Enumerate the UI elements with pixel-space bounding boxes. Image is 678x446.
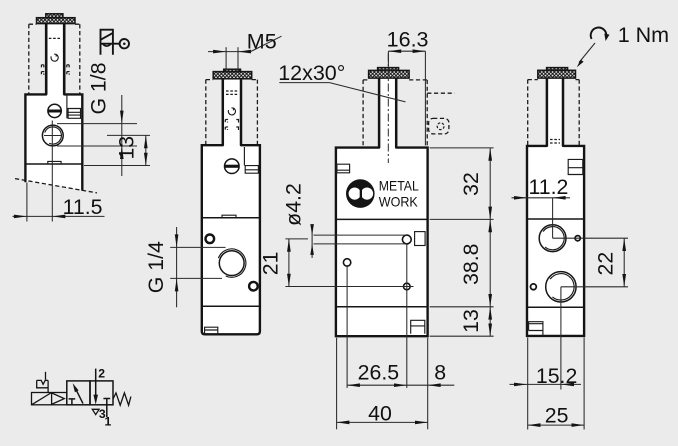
svg-text:G 1/8: G 1/8: [87, 62, 111, 114]
dim G1/8 extension bottom: [57, 145, 137, 147]
dim 26.5 line: [347, 384, 407, 386]
view1 stem fill: [46, 23, 64, 95]
view1 stem hidden detent left: [41, 65, 43, 75]
dim 13 extension bottom: [84, 165, 150, 167]
symbol detent: [37, 380, 48, 392]
view2 divider notch: [222, 215, 236, 218]
symbol actuator box: [32, 393, 67, 405]
torque icon arc: [591, 28, 607, 39]
dim 11.5 arrow left: [14, 215, 27, 219]
svg-text:1: 1: [105, 415, 112, 429]
view1 stem wall left: [45, 24, 48, 95]
view2 body outline: [202, 145, 260, 334]
view2 divider 2: [202, 305, 260, 307]
dim right extension bottom: [430, 335, 494, 337]
dim right extension d2: [430, 306, 494, 308]
symbol solenoid diagonal: [32, 393, 52, 405]
central body fill: [336, 148, 428, 337]
svg-text:WORK: WORK: [379, 194, 419, 210]
dim 21 extension bottom: [285, 286, 413, 288]
central phantom lever circle: [437, 123, 444, 130]
view1 port G1/8 thread arc: [45, 127, 62, 144]
dim 16.3 extension left: [387, 51, 389, 67]
right bottom-left box: [529, 322, 543, 336]
central phantom outline: [363, 80, 427, 148]
symbol left blocked port T: [69, 399, 76, 405]
view1 screw slot: [48, 110, 61, 113]
view2 port G1/4 thread arc: [218, 249, 246, 277]
svg-text:40: 40: [368, 401, 392, 425]
right stem wall left: [546, 78, 549, 146]
right divider 1: [527, 218, 584, 220]
right port lower circle: [546, 272, 576, 302]
logo center bar: [360, 184, 362, 202]
right ring upper: [575, 236, 580, 241]
dim 13 line: [145, 135, 147, 165]
view1 port centerline vertical: [51, 121, 53, 222]
view1 body fill: [25, 94, 82, 189]
view2 screw: [225, 159, 240, 174]
svg-text:26.5: 26.5: [358, 361, 399, 385]
view2 stem fill: [223, 78, 242, 145]
torque icon arrowhead: [604, 34, 609, 42]
dim G1/4 line: [176, 227, 178, 307]
view1 body outline: [25, 94, 82, 189]
central hole left: [343, 259, 350, 266]
symbol square left: [67, 381, 90, 405]
icon knob dot: [123, 42, 126, 45]
right body fill: [527, 146, 584, 336]
view1 compartment line: [66, 94, 68, 118]
dim 11.5 extension left: [26, 183, 28, 222]
dim 11.5 arrow right: [52, 215, 65, 219]
symbol port2 line: [95, 369, 97, 401]
dim 22 line: [623, 238, 625, 287]
dim phi4.2 arrow down: [310, 224, 314, 235]
dim 13b line: [489, 307, 491, 336]
view1 port centerline horizontal: [44, 135, 62, 137]
central cap bar: [369, 70, 410, 78]
dim M5 line: [208, 51, 251, 53]
right cap bar: [538, 70, 576, 78]
central right edge box: [415, 232, 426, 246]
view2 body fill: [202, 145, 260, 334]
icon stem line: [101, 43, 120, 45]
dim 11.2 arrow right: [553, 196, 566, 200]
view2 stem wall left: [222, 79, 225, 145]
right stem fill: [547, 78, 564, 146]
dim bottom extension right: [427, 338, 429, 430]
symbol exhaust triangle: [92, 409, 99, 414]
view1 phantom outline: [29, 24, 80, 94]
symbol flow arrowhead down: [93, 395, 98, 405]
central stem wall right: [395, 78, 398, 148]
symbol port1 blocked T: [103, 399, 110, 418]
svg-text:13: 13: [459, 309, 483, 333]
view1 bottom notch: [48, 161, 61, 164]
central hole lower-right: [404, 283, 411, 290]
view1 stem hidden detent right: [67, 65, 69, 75]
view1 body bottom line: [25, 163, 82, 165]
dim 11.2 arrow left: [514, 196, 527, 200]
dim right extension top: [430, 147, 494, 149]
label 1Nm arrowhead: [577, 60, 584, 68]
svg-text:16.3: 16.3: [387, 28, 429, 52]
dim 11.2 line: [512, 197, 571, 199]
svg-text:32: 32: [459, 172, 483, 196]
central phantom side line: [427, 92, 454, 94]
view2 screw ring bottom-right: [249, 282, 258, 291]
icon diagonal: [101, 33, 113, 40]
dim 25 line: [528, 424, 584, 426]
right body outline: [527, 146, 584, 336]
view1 stem rotation symbol: [51, 54, 58, 61]
dim 25 extension left: [527, 338, 529, 430]
dim G1/4 extension bottom: [170, 277, 222, 279]
central stem fill: [379, 78, 396, 148]
view1 connector box: [68, 109, 80, 119]
svg-text:8: 8: [434, 361, 446, 385]
view1 port G1/8 outer circle: [42, 125, 63, 146]
dim M5 arrow right: [238, 50, 251, 54]
dim G1/8 extension top: [57, 123, 137, 125]
view2 stem hidden detent right: [236, 120, 238, 131]
right port upper circle: [539, 225, 566, 252]
central stem centerline: [387, 54, 389, 164]
view2 stem hidden lines: [226, 91, 238, 94]
view2 stem wall right: [240, 79, 243, 145]
view2 divider 1: [202, 217, 260, 219]
view1 stem wall right: [63, 24, 66, 95]
view1 screw: [48, 104, 61, 117]
view2 screw slot: [225, 165, 239, 168]
central body outline: [336, 148, 428, 337]
view2 cap bump: [224, 69, 241, 71]
dim 21 line: [288, 239, 290, 287]
label 1Nm leader: [579, 43, 595, 63]
dim phi4.2 line: [311, 226, 313, 258]
symbol left flow arrow: [75, 388, 83, 404]
dim G1/8 arrow up: [120, 146, 124, 159]
symbol square right: [90, 381, 113, 405]
dim phi4.2 arrow up: [310, 244, 314, 255]
central cap bump: [378, 68, 399, 71]
dim 38.8 line: [489, 219, 491, 306]
symbol detent pin: [45, 372, 47, 380]
dim 15.2 extension: [560, 287, 562, 390]
svg-text:1 Nm: 1 Nm: [618, 23, 669, 47]
dim 13 extension mid: [107, 134, 150, 136]
svg-text:25: 25: [545, 404, 569, 428]
view2 screw ring top-left: [206, 235, 215, 244]
dim phi4.2 tangent top: [314, 234, 407, 236]
right port lower thread arc: [550, 274, 574, 300]
dim G1/4 arrow up: [175, 278, 179, 291]
label 12x30 leader: [279, 83, 405, 102]
dim phi4.2 tangent bottom: [314, 243, 407, 245]
central divider 2: [336, 306, 428, 308]
right port upper thread arc: [543, 227, 564, 250]
central phantom lever stub: [429, 118, 449, 133]
dim right extension d1: [430, 218, 494, 220]
svg-text:2: 2: [98, 366, 105, 380]
dim 16.3 extension right: [424, 51, 426, 145]
svg-text:ø4.2: ø4.2: [282, 183, 306, 226]
view2 compartment line: [243, 147, 245, 166]
view2 bottom-left box: [205, 327, 218, 334]
dim G1/4 arrow down: [175, 234, 179, 247]
dim G1/8 line: [121, 95, 123, 176]
dim G1/8 arrow down: [120, 111, 124, 124]
icon frame: [101, 30, 113, 55]
right stem wall right: [562, 78, 565, 146]
logo white left: [349, 188, 361, 200]
central divider 1: [336, 218, 428, 220]
svg-text:13: 13: [114, 136, 138, 160]
dim 32 line: [489, 148, 491, 220]
symbol spring: [113, 393, 131, 405]
dim 25 extension right: [583, 338, 585, 430]
svg-text:15.2: 15.2: [536, 364, 577, 388]
right ring lower: [531, 284, 537, 290]
dim 22 extension top: [553, 237, 628, 239]
central bottom-right box: [411, 320, 425, 334]
dim 8 line: [407, 384, 455, 386]
view2 cap bar: [213, 72, 252, 79]
dim M5 extension left: [225, 47, 227, 71]
central stem wall left: [378, 78, 381, 148]
central hole upper-right: [402, 235, 411, 244]
svg-text:38.8: 38.8: [459, 243, 483, 284]
dim 16.3 line: [388, 50, 425, 52]
dim 11.2 extension: [552, 198, 554, 238]
symbol pilot triangle: [52, 393, 65, 405]
view1 break line (slanted dashed): [15, 179, 97, 193]
dim 40 line: [337, 421, 428, 423]
svg-text:G 1/4: G 1/4: [144, 241, 168, 293]
view2 phantom outline: [206, 80, 258, 146]
svg-text:21: 21: [258, 252, 282, 276]
view1 cap bump: [46, 14, 63, 18]
dim 11.5 line: [13, 215, 105, 217]
dim 8 arrow: [428, 383, 441, 387]
right top box: [568, 159, 583, 174]
central top-left box: [337, 164, 350, 173]
view2 stem hidden detent left: [225, 120, 227, 131]
view1 cap bar: [37, 18, 76, 24]
svg-text:METAL: METAL: [379, 178, 419, 194]
dim 15.2 arrow right: [561, 383, 574, 387]
icon knob circle: [120, 39, 129, 48]
right cap bump: [547, 68, 568, 71]
dim M5 leader: [251, 36, 282, 51]
dim G1/4 extension top: [170, 246, 225, 248]
dim M5 extension right: [237, 47, 239, 71]
view2 connector box: [245, 166, 258, 174]
view2 stem rotation symbol: [228, 108, 235, 115]
right divider 2: [527, 306, 584, 308]
svg-text:12x30°: 12x30°: [278, 61, 345, 85]
icon detent dip: [103, 44, 112, 46]
dim M5 arrow left: [213, 50, 226, 54]
central hole vline right: [406, 244, 408, 388]
right stem hidden marks: [550, 140, 560, 144]
right phantom outline: [528, 80, 580, 146]
logo circle: [346, 179, 375, 208]
dim 15.2 arrow left: [514, 383, 527, 387]
dim bottom extension left: [336, 338, 338, 430]
svg-text:M5: M5: [247, 29, 277, 53]
central hole vline left: [346, 267, 348, 388]
view1 stem hidden socket: [49, 37, 62, 39]
logo white right: [361, 188, 373, 200]
dim 15.2 line: [510, 383, 582, 385]
manual override icon: [101, 30, 130, 55]
dim 21 extension top: [285, 238, 308, 240]
svg-text:11.2: 11.2: [529, 175, 569, 199]
svg-text:11.5: 11.5: [63, 195, 103, 219]
view2 port G1/4 inner circle: [219, 251, 244, 276]
dim 22 extension bottom: [561, 286, 628, 288]
svg-text:22: 22: [593, 252, 617, 276]
